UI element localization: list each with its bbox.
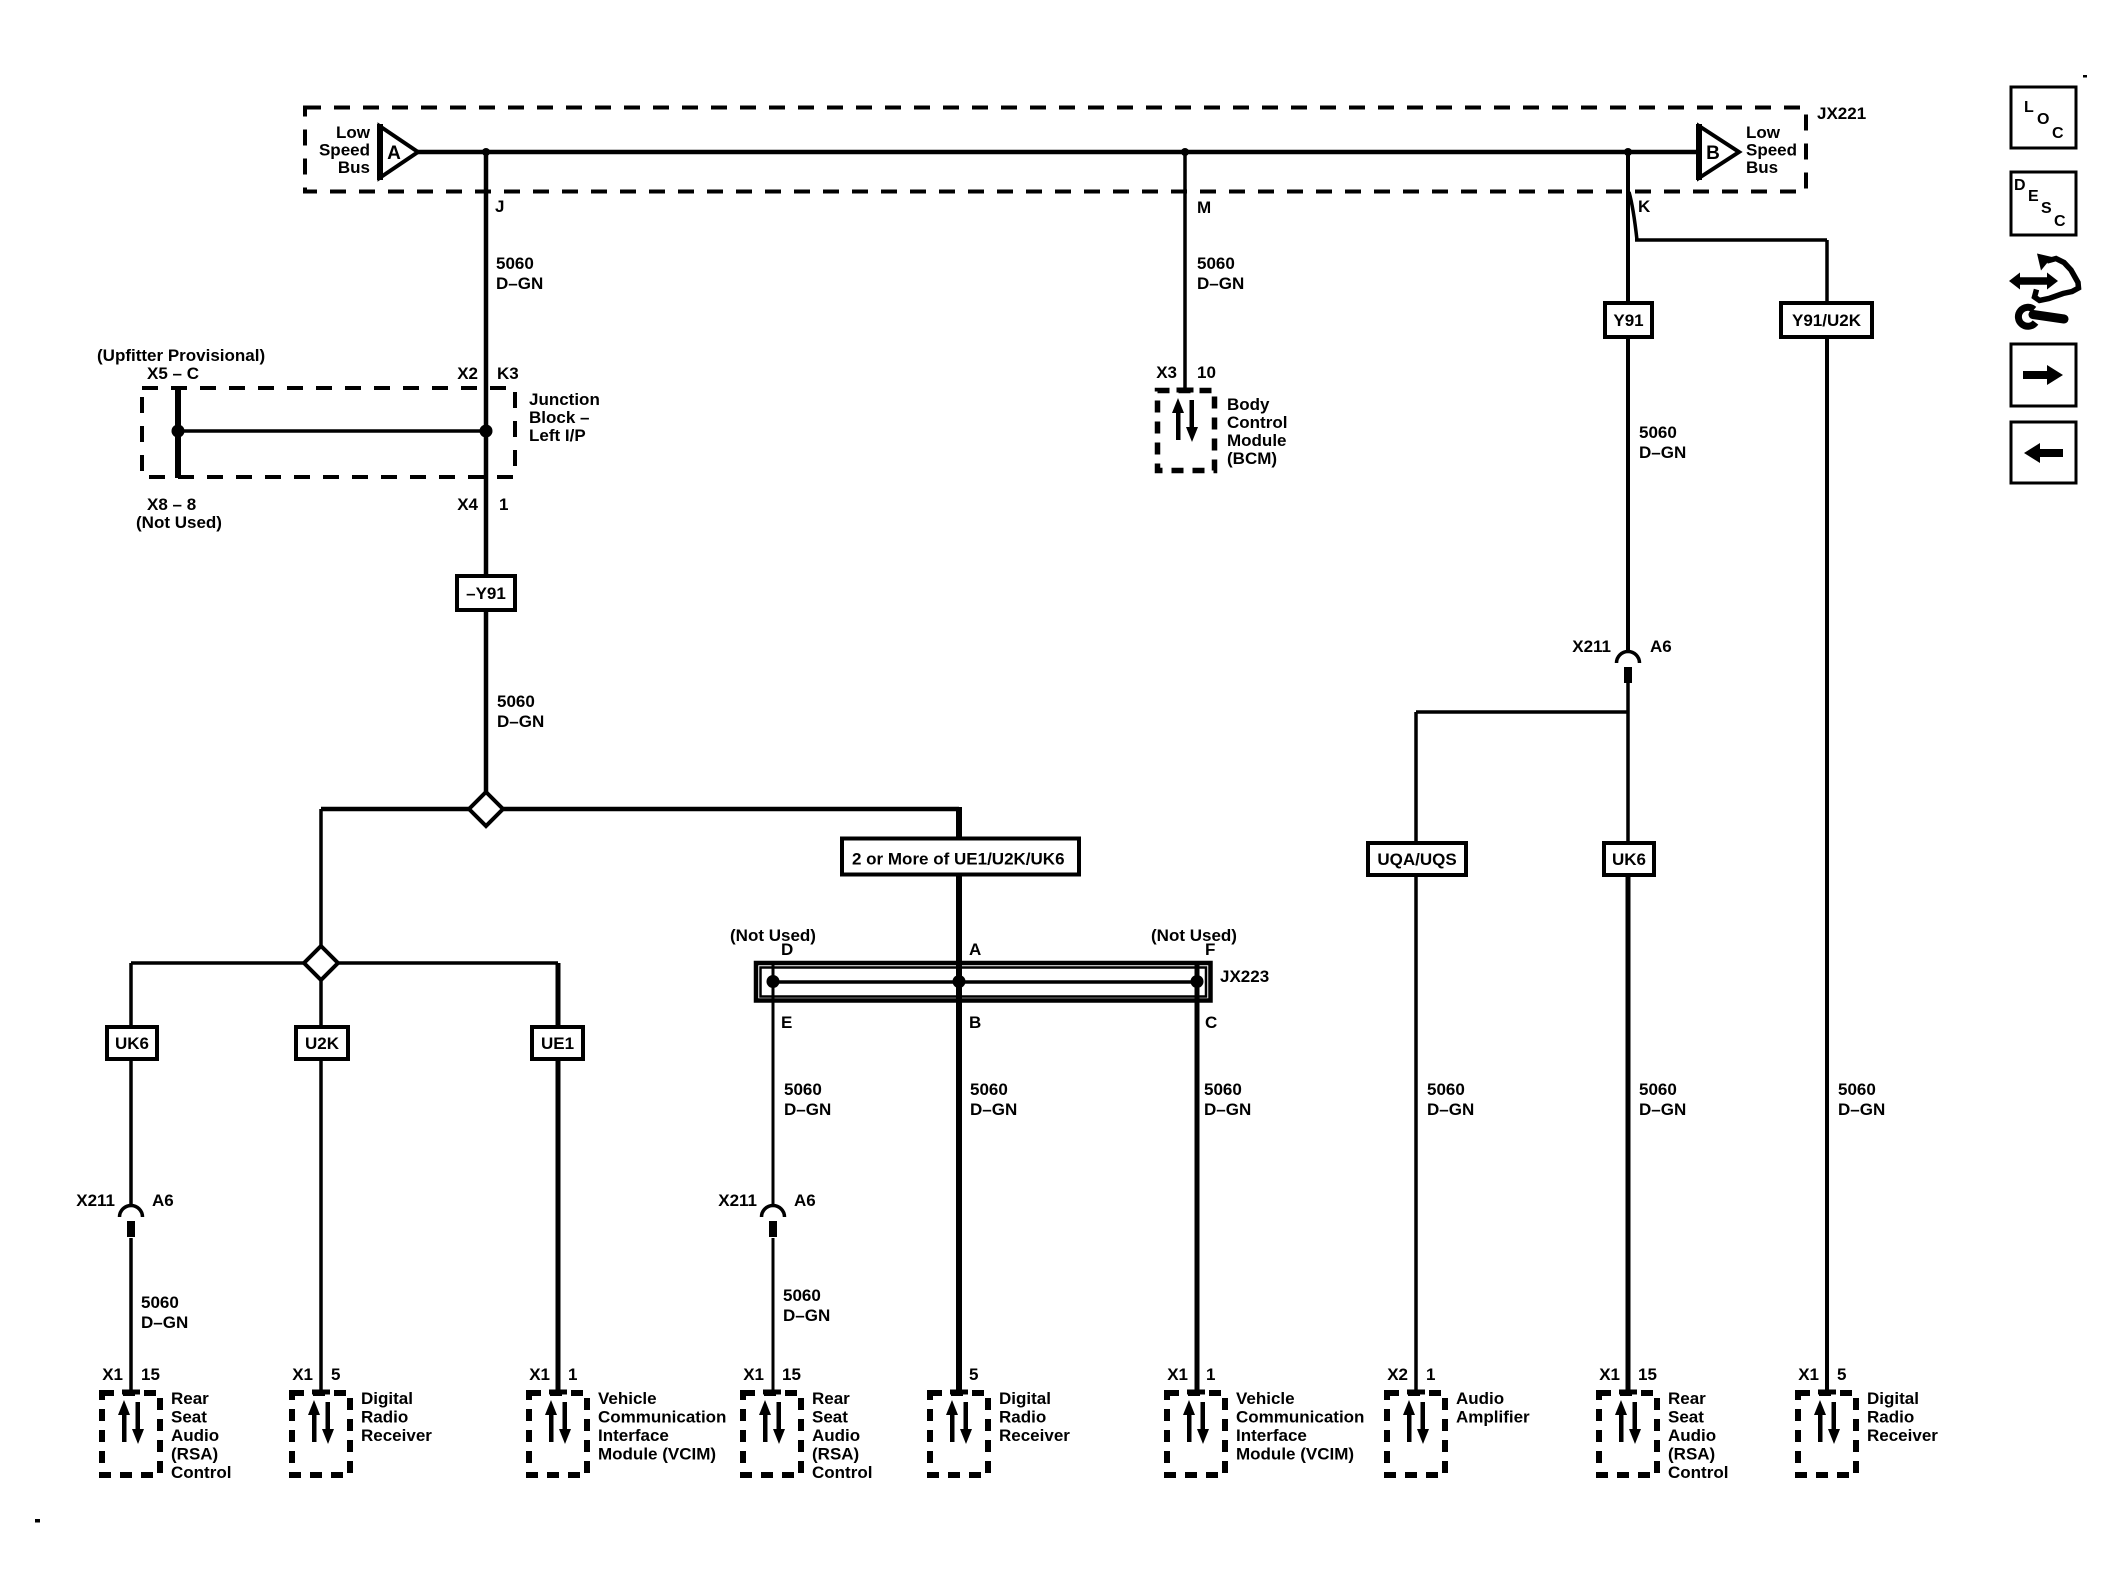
svg-text:Interface: Interface [1236,1426,1307,1445]
svg-text:X1: X1 [1798,1365,1819,1384]
module Vehicle Communication Interface Module VCIM 1 [529,1365,726,1475]
wire label 5060 D-GN UK6 left lower [141,1293,188,1332]
svg-text:D–GN: D–GN [784,1100,831,1119]
svg-text:Control: Control [1668,1463,1728,1482]
splice diamond 1 [469,792,503,826]
svg-text:Digital: Digital [361,1389,413,1408]
low speed bus triangle A [380,124,419,180]
wire F-C column [1195,964,1200,1392]
svg-text:Module: Module [1227,431,1287,450]
svg-text:D–GN: D–GN [497,712,544,731]
svg-text:Control: Control [812,1463,872,1482]
svg-text:X1: X1 [529,1365,550,1384]
svg-text:X1: X1 [1167,1365,1188,1384]
wire label 5060 D-GN E column lower [783,1286,830,1325]
option box UQA/UQS [1368,843,1466,875]
module Rear Seat Audio RSA Control 1 [102,1365,231,1482]
svg-text:O: O [2037,111,2049,128]
svg-text:Receiver: Receiver [999,1426,1070,1445]
svg-text:(RSA): (RSA) [1668,1445,1715,1464]
connector X211 A6 upper [1572,637,1672,656]
svg-text:X1: X1 [292,1365,313,1384]
sidebar DESC button [2011,172,2076,235]
svg-text:5060: 5060 [496,254,534,273]
wire label 5060 D-GN B column [970,1080,1017,1119]
option box Y91 [1605,303,1652,337]
svg-text:D–GN: D–GN [141,1313,188,1332]
svg-text:Audio: Audio [171,1426,219,1445]
svg-text:Seat: Seat [1668,1408,1704,1427]
svg-text:X1: X1 [743,1365,764,1384]
label low speed bus right [1746,123,1797,177]
svg-text:5: 5 [969,1365,978,1384]
svg-text:Control: Control [171,1463,231,1482]
svg-text:Amplifier: Amplifier [1456,1408,1530,1427]
svg-text:1: 1 [1426,1365,1435,1384]
svg-text:X211: X211 [718,1191,757,1210]
svg-text:D–GN: D–GN [496,274,543,293]
wire A-B column [956,807,962,1392]
wire M column [1183,152,1187,391]
svg-text:B: B [969,1013,981,1032]
svg-text:Module (VCIM): Module (VCIM) [1236,1445,1354,1464]
wire K to Y91/U2K jog [1629,192,1637,240]
connector JX223 outline [756,963,1211,1001]
wire J column upper [484,152,489,576]
svg-text:Rear: Rear [1668,1389,1706,1408]
svg-text:A6: A6 [152,1191,174,1210]
svg-text:A: A [387,143,401,164]
wire U2K column upper [319,977,323,1027]
svg-text:X1: X1 [1599,1365,1620,1384]
wire UE1 column lower [556,1059,561,1392]
svg-text:(BCM): (BCM) [1227,449,1277,468]
module Audio Amplifier [1387,1365,1530,1475]
svg-text:X211: X211 [1572,637,1611,656]
connector X211 A6 E column [718,1191,816,1210]
svg-text:5060: 5060 [1639,1080,1677,1099]
wire E column lower [772,1238,775,1392]
wire jog horizontal [1635,238,1827,242]
connector X211-A6 symbol E column [762,1206,785,1238]
svg-text:L: L [2024,99,2034,116]
svg-text:(Not Used): (Not Used) [730,926,816,945]
svg-text:Module (VCIM): Module (VCIM) [598,1445,716,1464]
option box UK6 left [107,1027,157,1059]
wire diamond1 horizontal [321,807,959,812]
svg-text:M: M [1197,198,1211,217]
svg-text:Seat: Seat [812,1408,848,1427]
option box UE1 [532,1027,583,1059]
svg-text:Bus: Bus [1746,158,1778,177]
node JX223 pin F-C [1191,975,1204,988]
svg-text:Control: Control [1227,413,1287,432]
splice diamond 2 [304,946,338,980]
label not used D [730,926,816,959]
svg-text:5060: 5060 [784,1080,822,1099]
svg-text:15: 15 [141,1365,160,1384]
svg-text:Rear: Rear [812,1389,850,1408]
wire J column lower [484,610,489,795]
svg-text:Radio: Radio [1867,1408,1914,1427]
wire K column X211 to UK6 [1626,670,1630,843]
svg-text:Digital: Digital [999,1389,1051,1408]
svg-text:Block –: Block – [529,408,589,427]
module Digital Radio Receiver 3 [1798,1365,1938,1475]
svg-text:JX223: JX223 [1220,967,1269,986]
module BCM [1158,390,1288,471]
option box -Y91 [457,576,515,610]
svg-text:Communication: Communication [1236,1408,1364,1427]
label junction block left I/P [529,390,600,445]
option box UK6 right [1604,843,1654,875]
svg-text:2 or More of UE1/U2K/UK6: 2 or More of UE1/U2K/UK6 [852,850,1065,869]
svg-text:Y91/U2K: Y91/U2K [1792,311,1862,330]
svg-text:UK6: UK6 [1612,850,1646,869]
svg-text:Audio: Audio [812,1426,860,1445]
svg-text:U2K: U2K [305,1034,340,1053]
svg-text:B: B [1706,143,1720,164]
svg-text:C: C [1205,1013,1217,1032]
wire junction block X5-X8 bar [175,386,181,478]
svg-text:D–GN: D–GN [1639,443,1686,462]
stray mark top right [2083,75,2087,78]
svg-text:D–GN: D–GN [1197,274,1244,293]
node M on bus [1181,148,1189,156]
svg-text:F: F [1205,940,1215,959]
svg-text:X4: X4 [457,495,478,514]
svg-text:Interface: Interface [598,1426,669,1445]
svg-text:Y91: Y91 [1613,311,1643,330]
svg-text:E: E [781,1013,792,1032]
svg-text:Low: Low [336,123,371,142]
svg-text:Junction: Junction [529,390,600,409]
svg-text:UQA/UQS: UQA/UQS [1377,850,1456,869]
svg-text:D: D [2014,177,2026,194]
wire UQA/UQS column upper [1414,712,1418,843]
wire UQA/UQS column lower [1414,875,1418,1392]
wire junction block to J column [178,429,486,433]
svg-text:Vehicle: Vehicle [598,1389,657,1408]
svg-text:A: A [969,940,981,959]
svg-text:X5 – C: X5 – C [147,364,199,383]
option box Y91/U2K [1781,303,1872,337]
sidebar LOC button [2011,87,2076,148]
svg-text:Communication: Communication [598,1408,726,1427]
node J column junction [480,425,493,438]
svg-text:(Not Used): (Not Used) [136,513,222,532]
svg-text:1: 1 [568,1365,577,1384]
svg-text:1: 1 [1206,1365,1215,1384]
svg-text:X211: X211 [76,1191,115,1210]
wire U2K column lower [319,1059,323,1392]
wire label 5060 D-GN E column [784,1080,831,1119]
module Rear Seat Audio RSA Control 3 [1599,1365,1728,1482]
svg-text:D: D [781,940,793,959]
connector JX221 dashed box [305,108,1806,192]
stray mark [35,1519,40,1523]
wire E column upper [772,964,775,1205]
svg-text:S: S [2041,200,2052,217]
svg-text:5060: 5060 [141,1293,179,1312]
wire label 5060 D-GN J lower [497,692,544,731]
wire label 5060 D-GN UQA column [1427,1080,1474,1119]
svg-text:J: J [495,197,504,216]
svg-text:Low: Low [1746,123,1781,142]
wire label 5060 D-GN K column [1639,423,1686,462]
svg-text:(Not Used): (Not Used) [1151,926,1237,945]
wire UK6 left column upper [129,963,133,1027]
svg-text:C: C [2052,125,2064,142]
svg-text:–Y91: –Y91 [466,584,506,603]
svg-text:K3: K3 [497,364,519,383]
svg-text:5060: 5060 [497,692,535,711]
svg-text:X3: X3 [1156,363,1177,382]
wire diamond2 horizontal [131,961,558,965]
svg-text:A6: A6 [794,1191,816,1210]
svg-text:5060: 5060 [1204,1080,1242,1099]
node X5-C junction [172,425,185,438]
low speed bus triangle B [1699,124,1739,180]
svg-text:(Upfitter Provisional): (Upfitter Provisional) [97,346,265,365]
module Digital Radio Receiver 2 [930,1365,1070,1475]
svg-text:5060: 5060 [1838,1080,1876,1099]
svg-text:C: C [2054,213,2066,230]
wire label 5060 D-GN UK6 right column [1639,1080,1686,1119]
svg-text:5060: 5060 [1427,1080,1465,1099]
svg-text:Digital: Digital [1867,1389,1919,1408]
wire UK6 left column lower [129,1238,133,1392]
svg-text:A6: A6 [1650,637,1672,656]
svg-text:Radio: Radio [999,1408,1046,1427]
svg-text:Bus: Bus [338,158,370,177]
svg-text:Seat: Seat [171,1408,207,1427]
svg-text:Radio: Radio [361,1408,408,1427]
module Rear Seat Audio RSA Control 2 [743,1365,872,1482]
svg-text:10: 10 [1197,363,1216,382]
wire label 5060 D-GN M column [1197,254,1244,293]
pin label X8-8 [136,495,222,532]
svg-text:Speed: Speed [319,141,370,160]
connector X211-A6 symbol upper [1617,652,1640,684]
wire UK6 right column lower [1626,875,1631,1392]
wire branch to UQA/UQS [1416,710,1628,714]
svg-text:D–GN: D–GN [970,1100,1017,1119]
wire Y91/U2K column upper [1825,240,1829,303]
svg-text:D–GN: D–GN [1204,1100,1251,1119]
svg-text:D–GN: D–GN [1639,1100,1686,1119]
wire to diamond2 [319,809,323,946]
svg-text:K: K [1638,197,1651,216]
module Vehicle Communication Interface Module VCIM 2 [1167,1365,1364,1475]
wire K column Y91 to X211 [1626,337,1630,656]
svg-text:5: 5 [331,1365,340,1384]
svg-text:E: E [2028,188,2039,205]
svg-text:Receiver: Receiver [1867,1426,1938,1445]
sidebar next arrow button [2011,344,2076,406]
svg-text:5060: 5060 [1197,254,1235,273]
module Digital Radio Receiver 1 [292,1365,432,1475]
sidebar back arrow button [2011,422,2076,483]
connector X211 A6 left [76,1191,174,1210]
svg-text:X1: X1 [102,1365,123,1384]
wire label 5060 D-GN J upper [496,254,543,293]
svg-text:Audio: Audio [1668,1426,1716,1445]
svg-text:Speed: Speed [1746,141,1797,160]
connector JX223 body [754,961,1213,1003]
node JX223 pin A-B [953,975,966,988]
wire JX223 internal bus [773,980,1197,984]
wire Y91/U2K column lower [1825,337,1829,1392]
node JX223 pin D-E [767,975,780,988]
svg-text:5: 5 [1837,1365,1846,1384]
sidebar repair icon [2009,254,2079,327]
wire UE1 column upper [556,963,561,1027]
node K on bus [1624,148,1632,156]
svg-text:D–GN: D–GN [1427,1100,1474,1119]
svg-text:Rear: Rear [171,1389,209,1408]
svg-text:15: 15 [782,1365,801,1384]
svg-text:1: 1 [499,495,508,514]
svg-text:15: 15 [1638,1365,1657,1384]
svg-text:5060: 5060 [783,1286,821,1305]
connector X211-A6 symbol left [120,1206,143,1238]
svg-text:X2: X2 [457,364,478,383]
svg-text:D–GN: D–GN [783,1306,830,1325]
wire label 5060 D-GN C column [1204,1080,1251,1119]
option box U2K [296,1027,348,1059]
node J on bus [482,148,490,156]
junction block dashed box [142,388,515,477]
svg-text:X8 – 8: X8 – 8 [147,495,196,514]
svg-text:(RSA): (RSA) [171,1445,218,1464]
svg-text:Vehicle: Vehicle [1236,1389,1295,1408]
svg-text:UE1: UE1 [541,1034,574,1053]
wire UK6 left column mid [129,1059,133,1205]
label low speed bus left [319,123,371,177]
svg-text:D–GN: D–GN [1838,1100,1885,1119]
svg-text:X2: X2 [1387,1365,1408,1384]
option box 2 or More of UE1/U2K/UK6 [842,839,1079,875]
label not used F [1151,926,1237,959]
svg-text:5060: 5060 [970,1080,1008,1099]
wire label 5060 D-GN Y91/U2K column [1838,1080,1885,1119]
svg-text:Audio: Audio [1456,1389,1504,1408]
svg-text:5060: 5060 [1639,423,1677,442]
svg-text:(RSA): (RSA) [812,1445,859,1464]
svg-text:Body: Body [1227,395,1270,414]
svg-text:Receiver: Receiver [361,1426,432,1445]
svg-text:JX221: JX221 [1817,104,1866,123]
svg-text:UK6: UK6 [115,1034,149,1053]
wire low speed bus A-B [418,150,1698,155]
svg-text:Left I/P: Left I/P [529,426,586,445]
wire K column upper [1626,152,1630,303]
